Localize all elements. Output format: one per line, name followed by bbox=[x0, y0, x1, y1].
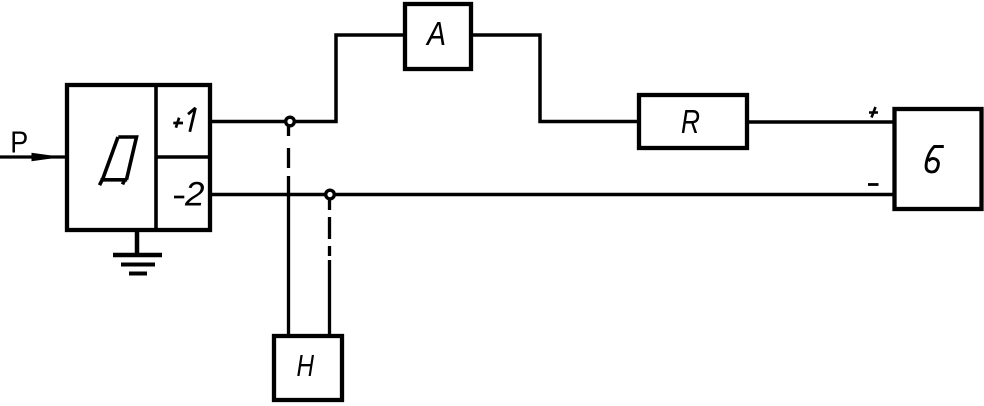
divider vertical bbox=[154, 83, 158, 232]
svg-text:2: 2 bbox=[184, 176, 205, 214]
ground bbox=[113, 230, 162, 274]
pin label -2 bbox=[174, 176, 205, 214]
node junction 1 bbox=[286, 117, 295, 126]
wire R to G bbox=[749, 120, 893, 124]
dashed tap from node 2 to H bbox=[328, 199, 331, 334]
svg-text:R: R bbox=[681, 103, 700, 140]
divider horizontal bbox=[156, 155, 211, 159]
node junction 2 bbox=[326, 190, 335, 199]
block H (recorder) bbox=[274, 336, 342, 400]
wire -2 to G bbox=[211, 193, 893, 197]
wire A to R bbox=[473, 35, 637, 122]
wire input P bbox=[0, 155, 65, 158]
dashed tap from node 1 to H bbox=[287, 126, 290, 334]
pin label +1 bbox=[173, 108, 195, 132]
letter G bbox=[926, 147, 944, 172]
block R (resistor) bbox=[639, 95, 747, 148]
svg-text:P: P bbox=[10, 125, 28, 160]
block G (galvanometer) bbox=[895, 109, 982, 209]
label plus bbox=[869, 107, 878, 118]
arrowhead input bbox=[32, 153, 63, 161]
svg-text:A: A bbox=[425, 15, 446, 52]
wire +1 to A bbox=[211, 35, 403, 122]
letter D (Cyrillic De) bbox=[100, 137, 137, 185]
block D (sensor) bbox=[67, 85, 210, 230]
svg-text:H: H bbox=[297, 348, 315, 383]
block A (amplifier) bbox=[405, 4, 471, 69]
label minus bbox=[868, 183, 879, 186]
